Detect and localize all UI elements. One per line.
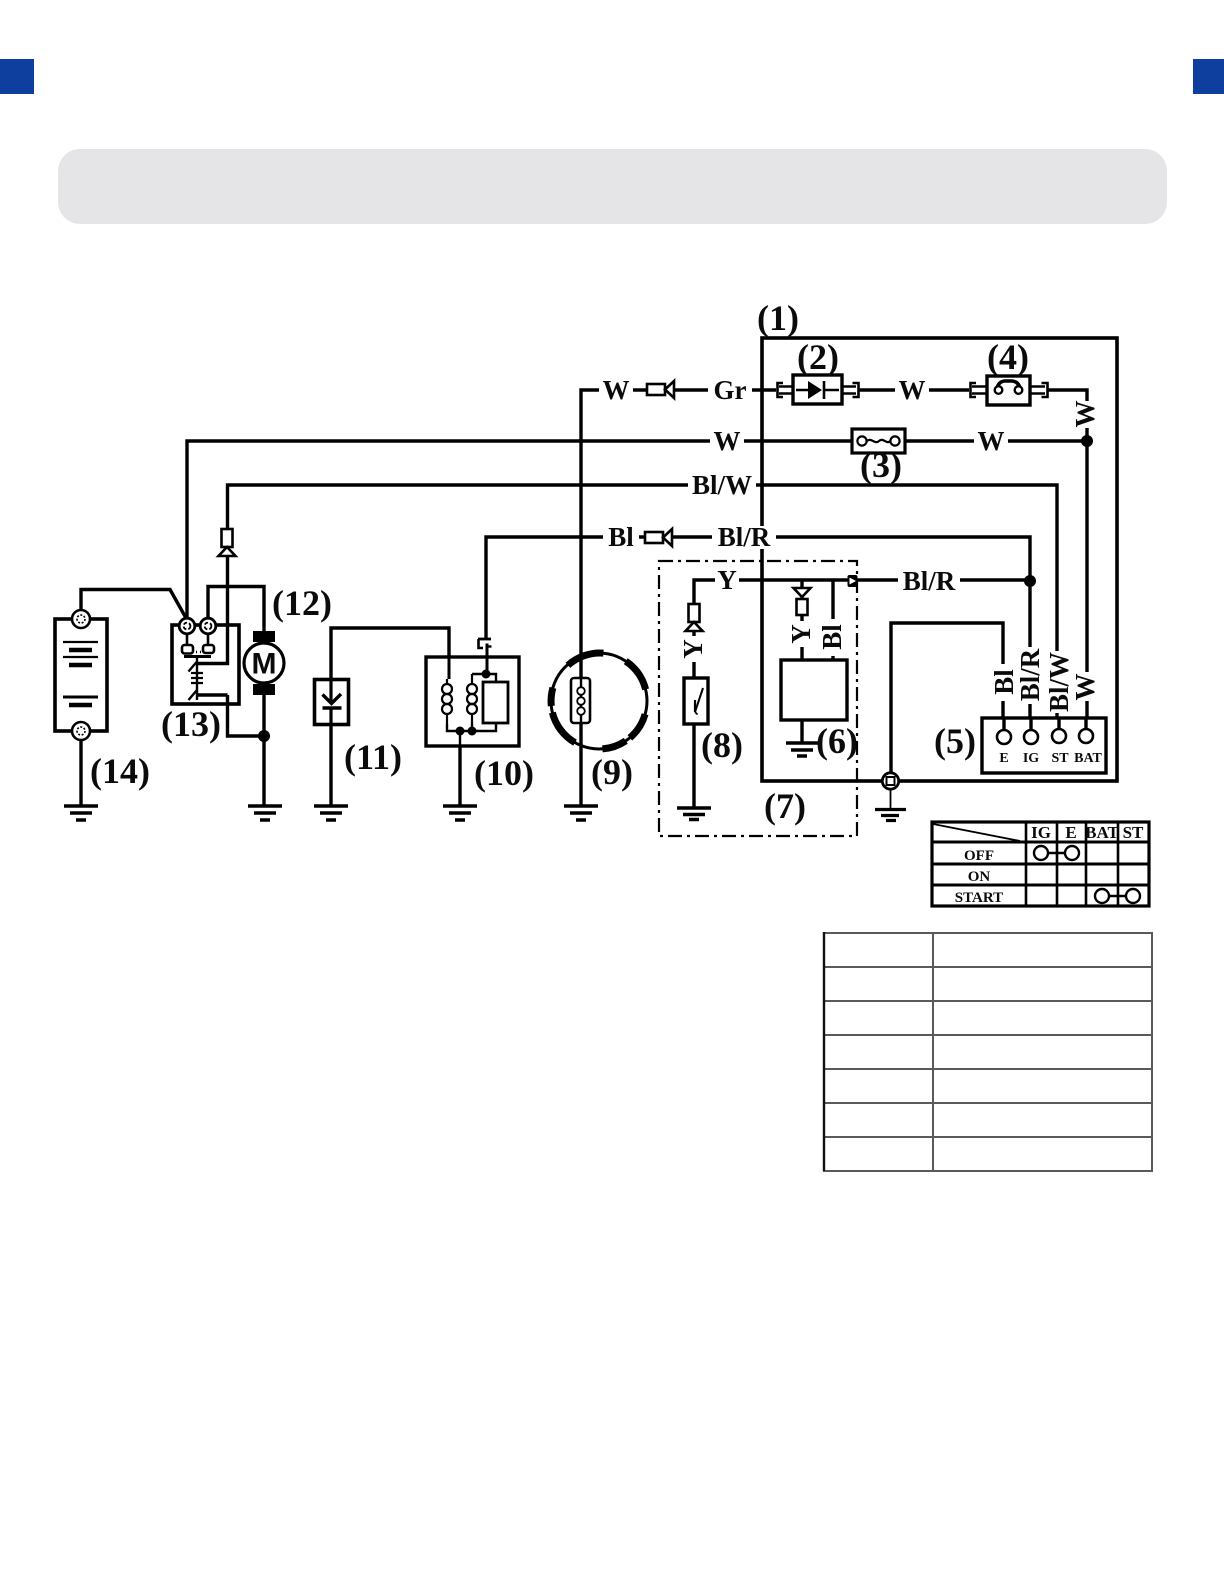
- svg-text:Bl/R: Bl/R: [718, 522, 771, 552]
- svg-text:(14): (14): [90, 751, 150, 791]
- svg-text:Bl/R: Bl/R: [903, 566, 956, 596]
- svg-text:Bl/R: Bl/R: [1015, 648, 1045, 701]
- svg-text:BAT: BAT: [1085, 823, 1119, 842]
- svg-text:ON: ON: [968, 869, 991, 885]
- svg-text:(2): (2): [797, 337, 839, 377]
- svg-text:ST: ST: [1123, 823, 1144, 842]
- svg-text:(10): (10): [474, 753, 534, 793]
- svg-text:(1): (1): [757, 298, 799, 338]
- svg-text:Bl/W: Bl/W: [692, 470, 752, 500]
- svg-text:(6): (6): [816, 721, 858, 761]
- svg-text:W: W: [603, 375, 630, 405]
- svg-text:BAT: BAT: [1074, 751, 1102, 766]
- svg-text:E: E: [999, 751, 1008, 766]
- svg-text:(8): (8): [701, 725, 743, 765]
- svg-text:(11): (11): [344, 737, 402, 777]
- svg-text:E: E: [1065, 823, 1076, 842]
- svg-text:OFF: OFF: [964, 848, 994, 864]
- svg-text:W: W: [899, 375, 926, 405]
- svg-text:W: W: [1070, 674, 1100, 701]
- svg-text:(9): (9): [591, 752, 633, 792]
- svg-text:Bl: Bl: [608, 522, 634, 552]
- svg-text:ST: ST: [1051, 751, 1069, 766]
- svg-text:Y: Y: [786, 624, 816, 644]
- svg-text:(3): (3): [860, 445, 902, 485]
- svg-text:(4): (4): [987, 337, 1029, 377]
- svg-text:IG: IG: [1023, 751, 1039, 766]
- svg-text:(5): (5): [934, 721, 976, 761]
- svg-text:(7): (7): [764, 786, 806, 826]
- svg-text:M: M: [252, 648, 277, 681]
- svg-text:W: W: [1070, 401, 1100, 428]
- svg-text:(12): (12): [272, 583, 332, 623]
- svg-text:W: W: [978, 426, 1005, 456]
- svg-text:IG: IG: [1031, 823, 1051, 842]
- svg-text:Y: Y: [717, 565, 737, 595]
- svg-text:Bl: Bl: [817, 624, 847, 650]
- svg-text:Gr: Gr: [714, 375, 747, 405]
- svg-text:W: W: [714, 426, 741, 456]
- svg-text:START: START: [955, 890, 1003, 906]
- svg-text:Y: Y: [678, 639, 708, 659]
- svg-text:(13): (13): [161, 704, 221, 744]
